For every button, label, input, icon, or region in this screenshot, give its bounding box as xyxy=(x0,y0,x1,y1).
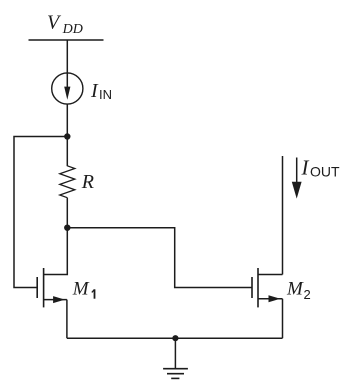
current source I_IN xyxy=(52,73,83,104)
wire resistor to node B xyxy=(66,198,68,228)
svg-text:I: I xyxy=(90,80,99,102)
label V_DD xyxy=(47,12,83,37)
label M_2 xyxy=(286,279,311,302)
transistor M2 xyxy=(252,268,283,307)
wire VDD rail to current source xyxy=(66,40,68,74)
wire node B to M2 gate xyxy=(67,228,251,288)
label I_IN xyxy=(90,80,112,102)
label I_OUT xyxy=(301,156,341,180)
svg-text:V: V xyxy=(47,12,62,34)
svg-text:DD: DD xyxy=(62,22,83,37)
svg-text:R: R xyxy=(81,171,94,193)
wire M2 source down xyxy=(282,299,284,338)
label M_1 xyxy=(72,278,95,299)
svg-text:IN: IN xyxy=(99,87,112,102)
svg-text:M: M xyxy=(286,279,304,300)
I_OUT arrow xyxy=(292,158,302,199)
resistor R xyxy=(60,166,75,198)
svg-text:OUT: OUT xyxy=(310,164,340,180)
ground junction dot xyxy=(172,335,178,341)
feedback wire node A to M1 gate xyxy=(14,137,67,288)
wire node A to resistor xyxy=(66,137,68,167)
node B junction dot xyxy=(64,225,70,231)
VDD rail xyxy=(29,39,104,41)
wire M2 drain output branch xyxy=(282,156,284,275)
transistor M1 xyxy=(37,268,67,338)
wire node B to M1 drain xyxy=(44,228,68,275)
svg-text:I: I xyxy=(301,156,310,180)
wire current source to node A xyxy=(66,104,68,137)
svg-text:2: 2 xyxy=(304,287,311,302)
node A junction dot xyxy=(64,133,70,139)
ground xyxy=(163,338,188,378)
bottom wire M1 source to M2 source xyxy=(67,337,283,339)
svg-text:M: M xyxy=(72,278,90,299)
